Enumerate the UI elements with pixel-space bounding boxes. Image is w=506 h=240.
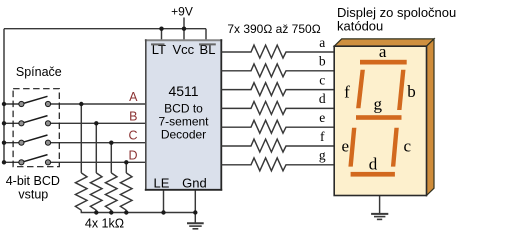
svg-text:vstup: vstup <box>18 187 48 201</box>
svg-text:f: f <box>320 129 325 144</box>
wire R4 bottom stub <box>125 210 127 212</box>
svg-text:BCD to: BCD to <box>164 102 203 116</box>
wire tap A down <box>80 104 82 173</box>
svg-text:7-sement: 7-sement <box>158 115 209 129</box>
node dot rail R4 <box>124 210 128 214</box>
svg-text:D: D <box>128 148 137 162</box>
svg-text:a: a <box>379 42 387 61</box>
wire row A right <box>48 103 146 105</box>
resistor R3 1k <box>105 173 117 210</box>
svg-text:c: c <box>404 137 412 156</box>
svg-text:g: g <box>373 95 382 114</box>
svg-text:katódou: katódou <box>337 19 383 34</box>
wire row C left <box>4 142 21 144</box>
resistor R4 1k <box>120 173 132 210</box>
display body top face <box>334 39 434 46</box>
wire Vcc pin drop <box>183 29 185 41</box>
svg-text:Spínače: Spínače <box>16 65 62 79</box>
wire row d + resistor Rd <box>221 102 335 115</box>
svg-text:Vcc: Vcc <box>172 42 194 57</box>
op IC U1 4511 body <box>145 39 222 190</box>
svg-text:7x 390Ω až 750Ω: 7x 390Ω až 750Ω <box>227 22 320 36</box>
wire row A left <box>4 103 21 105</box>
segment e <box>348 128 356 167</box>
svg-text:g: g <box>319 148 326 163</box>
wire LE pin drop <box>163 190 165 213</box>
svg-text:Decoder: Decoder <box>161 128 206 142</box>
node dot tap D <box>124 160 128 164</box>
svg-text:c: c <box>319 72 325 87</box>
pin label LT <box>151 42 166 57</box>
wire row B left <box>4 122 21 124</box>
wire Gnd pin drop <box>194 190 196 223</box>
svg-text:Gnd: Gnd <box>182 175 207 190</box>
svg-text:4x 1kΩ: 4x 1kΩ <box>85 217 124 231</box>
svg-text:f: f <box>344 83 350 102</box>
svg-text:C: C <box>128 129 137 143</box>
wire row e + resistor Re <box>221 120 335 133</box>
wire LT pin drop <box>161 29 163 41</box>
segment a <box>360 60 407 65</box>
node dot tap B <box>94 121 98 125</box>
switch S1 <box>19 96 51 106</box>
wire bottom rail <box>81 210 195 212</box>
wire row c + resistor Rc <box>221 83 335 96</box>
switch box dashed <box>13 89 59 167</box>
segment g <box>356 115 402 120</box>
wire +9V lead <box>183 18 185 29</box>
svg-text:4-bit BCD: 4-bit BCD <box>6 174 60 188</box>
svg-text:A: A <box>129 90 138 104</box>
wire BL pin drop <box>205 29 207 41</box>
node dot rail row B <box>2 121 6 125</box>
resistor R1 1k <box>75 173 87 210</box>
wire row a + resistor Ra <box>221 45 335 58</box>
ground under display <box>371 214 388 220</box>
wire row B right <box>48 122 146 124</box>
wire tap D down <box>125 162 127 173</box>
switch S4 <box>19 155 51 165</box>
wire row b + resistor Rb <box>221 64 335 77</box>
segment f <box>356 70 365 109</box>
svg-text:e: e <box>319 110 325 125</box>
node dot rail R3 <box>109 210 113 214</box>
node dot rail row C <box>2 141 6 145</box>
wire left rail <box>3 29 5 163</box>
wire R2 bottom stub <box>95 210 97 212</box>
svg-text:d: d <box>369 155 378 174</box>
node dot rail Gnd <box>193 210 197 214</box>
wire row f + resistor Rf <box>221 139 335 152</box>
svg-text:e: e <box>342 137 350 156</box>
switch S2 <box>19 116 51 126</box>
svg-text:+9V: +9V <box>171 5 193 19</box>
svg-text:B: B <box>129 109 137 123</box>
wire top rail from left rail to BL pin <box>4 28 206 30</box>
output row wires and resistors <box>221 45 335 171</box>
wire tap B down <box>95 123 97 173</box>
wire row C right <box>48 142 146 144</box>
node dot tap A <box>79 102 83 106</box>
node dot rail row D <box>2 160 6 164</box>
svg-text:4511: 4511 <box>168 83 198 99</box>
node dot Vcc top <box>182 27 186 31</box>
wire row g + resistor Rg <box>221 158 335 171</box>
switch S3 <box>19 135 51 145</box>
svg-text:LE: LE <box>154 175 170 190</box>
svg-text:b: b <box>407 82 416 101</box>
node dot rail R2 <box>94 210 98 214</box>
segment d <box>351 172 395 177</box>
svg-text:d: d <box>319 91 326 106</box>
ground under IC <box>187 223 204 229</box>
display body right face <box>427 39 435 196</box>
svg-text:b: b <box>319 54 326 69</box>
pin label BL <box>199 42 216 57</box>
wire display ground lead <box>379 196 381 214</box>
display body front face <box>334 46 426 195</box>
wire tap C down <box>110 143 112 173</box>
wire row D left <box>4 161 21 163</box>
node dot tap C <box>109 141 113 145</box>
segment b <box>397 70 405 110</box>
node dot rail LE <box>161 210 165 214</box>
segment c <box>391 128 399 167</box>
svg-text:a: a <box>319 35 325 50</box>
node dot LT top <box>159 27 163 31</box>
resistor R2 1k <box>90 173 102 210</box>
wire row D right <box>48 161 146 163</box>
wire R3 bottom stub <box>110 210 112 212</box>
node dot rail row A <box>2 102 6 106</box>
